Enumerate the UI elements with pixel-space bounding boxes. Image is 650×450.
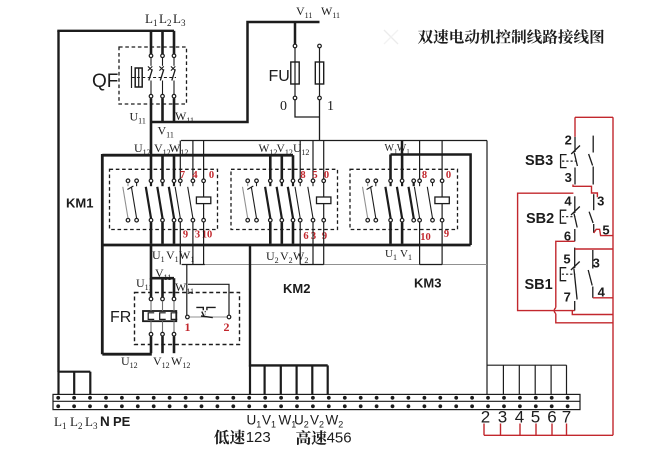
label V2 KM2 xyxy=(280,249,293,265)
red wire terminal stub xyxy=(566,424,568,436)
coil KM1 xyxy=(196,179,210,222)
wire U12 bundle left edge xyxy=(101,154,104,354)
wire motor drop xyxy=(327,365,329,394)
label V11 FR xyxy=(155,266,171,282)
label W1b above KM3 xyxy=(397,143,410,156)
label W11 FR xyxy=(175,280,194,296)
wire FR feed xyxy=(151,245,174,278)
svg-text:8: 8 xyxy=(300,170,305,181)
wire KM2 output xyxy=(269,222,272,244)
label W12 FR xyxy=(171,354,190,370)
label FU xyxy=(269,68,290,85)
wire terminal riser xyxy=(486,141,488,395)
pushbutton SB2 NO contact xyxy=(589,194,594,233)
svg-text:8: 8 xyxy=(422,170,427,181)
svg-text:3: 3 xyxy=(593,256,600,271)
label V12 above KM2 xyxy=(277,143,293,157)
red wire 2 drop xyxy=(574,117,576,137)
fuse FU1 xyxy=(291,44,299,100)
svg-text:5: 5 xyxy=(531,407,540,426)
contactor KM2 aux contact 4 xyxy=(308,179,315,222)
svg-text:0: 0 xyxy=(446,170,451,181)
wire KM1 main feed xyxy=(173,155,176,179)
wire control comb drop xyxy=(534,365,536,394)
wire L1 to strip xyxy=(57,372,59,395)
contactor KM2 box xyxy=(231,169,338,229)
label L2 xyxy=(159,11,171,28)
breaker QF box xyxy=(119,47,187,104)
label U12 above KM1 xyxy=(134,141,151,157)
contactor KM2 aux contact 1 xyxy=(243,179,250,222)
red wire 2 loop top xyxy=(575,116,613,118)
svg-text:1: 1 xyxy=(327,99,334,114)
label 0 xyxy=(280,99,287,114)
label L3 xyxy=(173,11,186,28)
label 1 xyxy=(327,99,334,114)
wire FR output xyxy=(150,336,153,353)
contactor KM3 box xyxy=(350,169,458,229)
label SB1 xyxy=(525,277,553,293)
red wire 5 SB1 feed xyxy=(575,248,613,250)
svg-text:FU: FU xyxy=(269,68,290,85)
contactor KM1 aux contact 4 xyxy=(188,179,195,222)
svg-text:3: 3 xyxy=(565,170,572,185)
contactor KM3 aux NC contact 2 xyxy=(367,179,378,222)
wire 0 from FU xyxy=(295,100,320,117)
contactor KM3 aux contact 4 xyxy=(427,179,434,222)
label KM1 xyxy=(66,196,93,211)
contactor KM3 main contact 3 xyxy=(409,179,416,222)
svg-text:123: 123 xyxy=(246,429,271,446)
label W11 at FU xyxy=(321,4,340,20)
wire motor drop xyxy=(280,365,282,394)
wire supply comb xyxy=(59,371,91,373)
wire KM1 control drop xyxy=(192,222,194,264)
terminal 7 SB1 xyxy=(564,290,571,305)
wire number 4 KM1 xyxy=(192,170,198,181)
label V11 mid xyxy=(158,124,174,140)
caption high speed xyxy=(296,429,351,446)
wire control return xyxy=(182,264,488,266)
pushbutton SB1 NC contact xyxy=(571,248,580,311)
contactor KM2 main contact 3 xyxy=(288,179,295,222)
red wire 5 SB2 xyxy=(594,229,613,235)
wire KM2 control drop xyxy=(312,222,314,264)
wire number 8 KM2 xyxy=(300,170,305,181)
wire L1 drop xyxy=(150,31,153,54)
label U1 KM1 xyxy=(152,248,165,264)
contactor KM1 main contact 3 xyxy=(169,179,176,222)
wire KM2 main feed xyxy=(280,155,283,179)
wire KM3 output xyxy=(401,222,404,244)
terminal number 4 xyxy=(515,407,524,426)
label V1 strip xyxy=(262,413,276,430)
svg-text:KM3: KM3 xyxy=(414,276,441,291)
label FR xyxy=(110,309,131,326)
terminal number 5 xyxy=(531,407,540,426)
wire bundle to FR xyxy=(102,353,152,356)
wire number 3 KM2 xyxy=(311,231,316,242)
label KM3 xyxy=(414,276,441,291)
wire KM3 main feed xyxy=(389,155,392,180)
terminal 5 SB1 xyxy=(563,252,570,267)
label L2 strip xyxy=(70,414,82,431)
label W1 strip xyxy=(279,413,297,430)
pushbutton SB1 actuator xyxy=(560,268,575,281)
wire control link KM3 xyxy=(420,264,443,266)
thermal relay FR pole xyxy=(149,297,153,336)
svg-text:FR: FR xyxy=(110,309,131,326)
thermal relay FR box xyxy=(135,293,240,345)
wire FR output xyxy=(173,336,176,353)
label U12 FR xyxy=(121,354,138,370)
wire KM1 control feed xyxy=(203,141,205,180)
wire motor drop xyxy=(249,365,251,394)
svg-text:4: 4 xyxy=(192,170,198,181)
wire number 0 KM1 xyxy=(209,170,214,181)
svg-text:4: 4 xyxy=(515,407,524,426)
wire FU feed V11 xyxy=(294,22,297,45)
terminal 6 SB2 xyxy=(564,229,571,244)
contactor KM1 aux NC contact 2 xyxy=(127,179,138,222)
red wire terminal stub xyxy=(519,424,521,436)
wire KM1 output xyxy=(161,222,164,244)
svg-text:9: 9 xyxy=(183,230,188,241)
terminal strip xyxy=(53,394,580,409)
svg-text:0: 0 xyxy=(280,99,287,114)
contactor KM2 aux NC contact 2 xyxy=(247,179,258,222)
wire KM1 control feed xyxy=(179,141,181,180)
pushbutton SB3 NO contact xyxy=(589,136,594,185)
label U11 FR xyxy=(136,276,152,292)
coil KM3 xyxy=(435,179,449,222)
terminal number 6 xyxy=(547,407,556,426)
wire bundle right top xyxy=(402,141,471,246)
red wire terminal stub xyxy=(500,424,502,436)
pushbutton SB1 NO contact xyxy=(588,250,593,298)
wire number 9 KM3 xyxy=(444,229,449,240)
title text xyxy=(418,29,604,44)
wire 2 from FR contact xyxy=(188,284,229,315)
label L1 strip xyxy=(54,414,66,431)
wire KM2 control feed xyxy=(312,141,314,180)
svg-text:0: 0 xyxy=(209,170,214,181)
label U2 strip xyxy=(294,413,309,430)
wire control link KM2 xyxy=(300,264,324,266)
label L3 strip xyxy=(85,414,98,431)
wire KM3 control drop xyxy=(419,222,421,264)
wire motor drop xyxy=(296,365,298,394)
wire KM2 main feed xyxy=(269,155,272,179)
red wire 4 loop xyxy=(518,193,575,310)
wire U12 bundle top left xyxy=(102,154,293,157)
svg-text:3: 3 xyxy=(597,194,604,209)
svg-text:2: 2 xyxy=(481,407,490,426)
contactor KM1 aux contact 1 xyxy=(123,179,130,222)
terminal strip dots xyxy=(56,396,569,408)
wire FR feed drop W11 xyxy=(173,278,176,297)
label U2 KM2 xyxy=(266,249,279,265)
wire KM1 control drop xyxy=(203,222,205,264)
pushbutton SB3 actuator xyxy=(561,155,576,168)
svg-text:6: 6 xyxy=(303,231,308,242)
wire KM3 control drop xyxy=(441,222,443,264)
label W11 mid xyxy=(175,109,194,125)
terminal number 7 xyxy=(562,407,571,426)
wire KM3 control feed xyxy=(441,141,443,180)
wire motor bundle xyxy=(250,245,328,365)
caption low speed xyxy=(214,429,271,446)
red wire terminal stub xyxy=(535,424,537,436)
red wire 6 SB2 xyxy=(554,241,613,322)
label N strip xyxy=(100,414,110,429)
wire 1 to FR contact xyxy=(186,265,188,316)
wire number 3 KM1 xyxy=(195,230,200,241)
svg-text:9: 9 xyxy=(322,231,327,242)
red wire 3 link SB3-SB2 xyxy=(573,185,597,198)
terminal number 3 xyxy=(498,407,507,426)
wire number 10 KM1 xyxy=(202,230,213,241)
wire number 6 KM2 xyxy=(303,231,308,242)
wire control comb drop xyxy=(502,365,504,394)
wire V11 from QF xyxy=(161,98,164,122)
label V1 KM1 xyxy=(166,248,179,264)
label U11 xyxy=(130,110,146,126)
wire output bus xyxy=(102,244,470,247)
svg-text:4: 4 xyxy=(564,194,572,209)
breaker QF pole 2 xyxy=(159,54,164,98)
wire KM2 output xyxy=(292,222,295,244)
wire number 8 KM3 xyxy=(422,170,427,181)
wire control comb drop xyxy=(550,365,552,394)
wire W11 from QF xyxy=(173,98,176,122)
svg-text:N: N xyxy=(100,414,110,429)
wire L3 to strip xyxy=(89,372,91,395)
svg-text:SB2: SB2 xyxy=(526,211,554,227)
label KM2 xyxy=(283,281,310,296)
contactor KM1 main contact 1 xyxy=(146,179,153,222)
wire L3 drop xyxy=(173,31,176,54)
wire bundle right top seg xyxy=(391,153,403,156)
watermark xyxy=(384,30,398,44)
wire motor drop xyxy=(264,365,266,394)
wire motor drop xyxy=(311,365,313,394)
wire control comb xyxy=(487,364,567,366)
terminal 5 SB2 xyxy=(602,223,609,238)
wire control comb drop xyxy=(566,365,568,394)
svg-text:7: 7 xyxy=(562,407,571,426)
svg-text:9: 9 xyxy=(444,229,449,240)
terminal 2 SB3 xyxy=(565,133,572,148)
svg-text:3: 3 xyxy=(498,407,507,426)
wire L2 drop xyxy=(161,31,164,54)
wire control link KM1 xyxy=(182,264,205,266)
label V12 above KM1 xyxy=(154,141,171,157)
wire V11-W11 run to FU xyxy=(151,22,320,122)
wire KM2 output xyxy=(280,222,283,244)
label W1 KM1 xyxy=(179,248,194,264)
svg-text:5: 5 xyxy=(312,170,317,181)
pushbutton SB2 NC contact xyxy=(571,196,580,241)
wire KM3 control feed xyxy=(419,141,421,180)
wire KM1 output xyxy=(150,222,153,244)
label U1 strip xyxy=(247,413,262,430)
red wire bottom bus xyxy=(484,434,613,436)
contactor KM1 aux contact 3 xyxy=(175,179,182,222)
contactor KM1 main contact 2 xyxy=(157,179,164,222)
wire number 10 KM3 xyxy=(420,232,431,243)
wire KM1 control feed xyxy=(192,141,194,180)
label SB2 xyxy=(526,211,554,227)
wire number 9 KM2 xyxy=(322,231,327,242)
svg-text:7: 7 xyxy=(180,170,185,181)
label L1 xyxy=(145,11,157,28)
wire number 2 xyxy=(224,320,230,334)
red wire terminal stub xyxy=(551,424,553,436)
thermal relay FR pole xyxy=(161,297,165,336)
wire number 7 xyxy=(180,170,185,181)
red wire 7 link xyxy=(572,311,613,315)
wire control comb drop xyxy=(518,365,520,394)
coil KM2 xyxy=(317,179,331,222)
wire KM1 main feed xyxy=(161,155,164,179)
terminal 4 SB1 xyxy=(598,285,606,300)
label SB3 xyxy=(525,153,553,169)
contactor KM1 box xyxy=(110,169,218,229)
svg-text:KM1: KM1 xyxy=(66,196,93,211)
contactor KM3 aux contact 1 xyxy=(363,179,370,222)
wire number 5 KM2 xyxy=(312,170,317,181)
svg-text:SB1: SB1 xyxy=(525,277,553,293)
svg-text:6: 6 xyxy=(547,407,556,426)
svg-text:7: 7 xyxy=(564,290,571,305)
wire FR feed drop V11 xyxy=(161,278,164,297)
label W12 above KM1 xyxy=(169,141,188,157)
wire number 1 xyxy=(185,320,191,334)
pushbutton SB2 actuator xyxy=(560,210,575,223)
wire number 0 KM2 xyxy=(324,170,329,181)
label PE strip xyxy=(113,414,131,429)
wire 1 from FU xyxy=(319,100,321,141)
wire control bus 1 xyxy=(181,140,487,142)
breaker QF actuator xyxy=(132,66,143,88)
thermal relay FR pole xyxy=(172,297,176,336)
wire number 9 KM1 xyxy=(183,230,188,241)
contactor KM3 main contact 1 xyxy=(385,179,392,222)
label W2 strip xyxy=(326,413,344,430)
thermal relay FR NC contact xyxy=(186,307,231,318)
label V2 strip xyxy=(310,413,324,430)
terminal 4 SB2 xyxy=(564,194,572,209)
svg-text:0: 0 xyxy=(324,170,329,181)
fuse FU2 xyxy=(315,44,323,100)
svg-text:1: 1 xyxy=(185,320,191,334)
label V11 at FU xyxy=(296,4,312,20)
breaker QF pole 3 xyxy=(171,54,176,98)
wire KM3 main feed xyxy=(401,155,404,180)
contactor KM3 main contact 2 xyxy=(397,179,404,222)
svg-text:SB3: SB3 xyxy=(525,153,553,169)
contactor KM2 aux contact 3 xyxy=(295,179,302,222)
breaker QF linkage xyxy=(132,77,177,79)
wire KM2 control drop xyxy=(323,222,325,264)
terminal 3 SB2 xyxy=(597,194,604,209)
svg-text:QF: QF xyxy=(92,71,118,92)
label W12 above KM2 xyxy=(259,143,278,157)
svg-text:2: 2 xyxy=(565,133,572,148)
svg-text:KM2: KM2 xyxy=(283,281,310,296)
thermal relay FR heaters xyxy=(143,311,177,321)
wire KM1 control drop xyxy=(179,222,181,264)
label W2 KM2 xyxy=(293,249,308,265)
wire KM2 control drop xyxy=(299,222,301,264)
contactor KM2 main contact 2 xyxy=(277,179,284,222)
label V1 KM3 xyxy=(400,248,412,262)
wire U11 from QF xyxy=(150,98,153,179)
wire KM2 main feed xyxy=(292,155,295,179)
svg-text:2: 2 xyxy=(224,320,230,334)
wire FR output xyxy=(161,336,164,353)
pushbutton SB3 NC contact xyxy=(571,137,580,185)
wire KM2 control feed xyxy=(323,141,325,180)
red wire rail xyxy=(612,117,614,435)
label U12 above KM2 xyxy=(293,143,309,157)
label U1 KM3 xyxy=(385,248,397,262)
contactor KM2 main contact 1 xyxy=(265,179,272,222)
wire KM1 output xyxy=(173,222,176,244)
wire KM3 output xyxy=(389,222,392,244)
contactor KM3 aux contact 3 xyxy=(414,179,421,222)
label V12 FR xyxy=(153,354,170,370)
terminal 3 SB1 xyxy=(593,256,600,271)
wire KM2 control feed xyxy=(299,141,301,180)
terminal 3 SB3 xyxy=(565,170,572,185)
label QF xyxy=(92,71,118,92)
label W1 above KM3 xyxy=(385,143,398,156)
svg-text:3: 3 xyxy=(195,230,200,241)
terminal number 2 xyxy=(481,407,490,426)
red wire 4 SB1 xyxy=(593,297,613,299)
svg-text:10: 10 xyxy=(420,232,431,243)
wire number 0 KM3 xyxy=(446,170,451,181)
wire L1-L2-L3 supply bus xyxy=(57,31,174,372)
svg-text:PE: PE xyxy=(113,414,131,429)
wire L2 to strip xyxy=(73,372,75,395)
red wire terminal stub xyxy=(483,424,485,436)
svg-text:5: 5 xyxy=(563,252,570,267)
wire FR feed drop U11 xyxy=(150,278,153,297)
svg-text:456: 456 xyxy=(327,429,352,446)
breaker QF pole 1 xyxy=(148,54,153,98)
